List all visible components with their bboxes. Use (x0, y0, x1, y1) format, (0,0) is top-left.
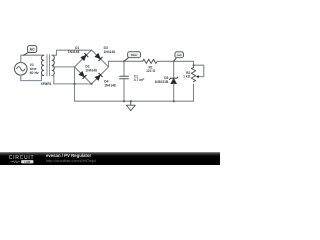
potentiometer R2 (191, 61, 204, 101)
svg-text:AC: AC (30, 48, 35, 52)
wire bridge right vertex stub up to top rail (108, 61, 110, 67)
wire top rail right segment (157, 60, 193, 62)
svg-text:LAB: LAB (24, 160, 30, 164)
svg-text:1N4148: 1N4148 (85, 69, 97, 73)
svg-text:filter: filter (131, 53, 139, 57)
junction C1 bottom on rail (123, 100, 125, 102)
circuit title (46, 154, 91, 159)
D5 label (154, 76, 169, 84)
resistor R1 (143, 59, 157, 63)
wire secondary top to bridge top vertex (52, 50, 91, 55)
capacitor C1 (120, 61, 129, 101)
junction ground on rail (130, 100, 132, 102)
footer bar (0, 152, 220, 165)
V1 label (30, 63, 39, 75)
C1 label (134, 74, 144, 82)
diode D4 (95, 73, 102, 80)
D3 label (104, 46, 116, 54)
D4 label (104, 80, 116, 88)
svg-text:1N4148: 1N4148 (104, 84, 116, 88)
ground (126, 101, 135, 110)
junction secondary bottom crossing (73, 83, 75, 85)
junction pot wiper (193, 64, 195, 66)
voltage source V1 (14, 63, 27, 76)
svg-text:1N5231B: 1N5231B (154, 80, 169, 84)
diode D3 (95, 53, 102, 60)
node filter flag (124, 52, 141, 62)
CircuitLab logo (9, 156, 35, 161)
R1 label (146, 65, 155, 73)
svg-text:out: out (177, 53, 182, 57)
svg-text:XFMR1: XFMR1 (41, 82, 52, 86)
transformer XFMR1 (41, 55, 54, 76)
node AC flag (24, 46, 37, 56)
junction at filter/C1 top (123, 60, 125, 62)
node out flag (174, 52, 184, 62)
svg-text:1 kΩ: 1 kΩ (183, 75, 191, 79)
wire V1 top to transformer primary (21, 55, 44, 62)
svg-text:4.7 mF: 4.7 mF (134, 78, 144, 82)
junction at out/D5 top (173, 60, 175, 62)
diode D1 (81, 53, 88, 60)
D1 label (68, 46, 80, 54)
svg-text:60 Hz: 60 Hz (30, 71, 39, 75)
wire bridge left vertex down to bottom rail (74, 67, 76, 101)
svg-text:1N4148: 1N4148 (68, 50, 80, 54)
wire V1 bottom to transformer primary (21, 75, 44, 81)
circuit url (46, 159, 96, 163)
wire bottom rail (75, 100, 194, 102)
diode D2 (79, 71, 86, 78)
wire secondary bottom to bridge bottom vertex (52, 76, 91, 84)
wire secondary center tap to bridge left vertex (53, 66, 75, 68)
bridge diamond wires (75, 50, 109, 84)
D2 label (85, 65, 97, 73)
zener diode D5 (170, 61, 178, 101)
junction D5 bottom on rail (173, 100, 175, 102)
svg-text:122 Ω: 122 Ω (146, 69, 155, 73)
junction bridge bottom vertex (90, 83, 92, 85)
R2 label (183, 71, 191, 79)
svg-text:1N4148: 1N4148 (104, 50, 116, 54)
wire top rail left segment (109, 60, 143, 62)
